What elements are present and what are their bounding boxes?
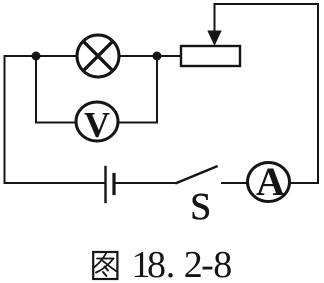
svg-text:A: A <box>256 159 285 204</box>
svg-text:S: S <box>190 186 211 228</box>
svg-text:V: V <box>84 105 110 145</box>
